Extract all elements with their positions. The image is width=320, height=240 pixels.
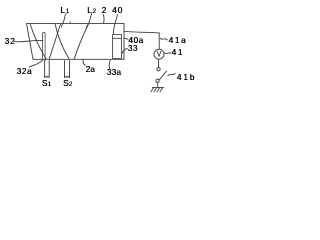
light pipe body (parallelogram) [27,23,125,59]
label 33 [128,43,138,53]
ray D1 [30,24,46,60]
label 40a [128,35,143,45]
voltmeter U (circle) [154,49,164,59]
label 33a [107,67,121,77]
S1 extension lines [44,61,46,78]
switch bottom contact [156,79,159,82]
label 2a [86,64,95,74]
ray C [74,24,89,60]
right edge [123,23,125,59]
ground [151,87,164,92]
top edge [27,22,125,24]
tick mark on top edge [69,22,71,24]
leader for 2 [102,15,105,24]
wire switch to ground [157,83,159,88]
label 32 [5,36,16,46]
label L1 [60,5,69,15]
S2 arrow [65,76,70,78]
leader for L1 [61,13,66,27]
S1 arrow [45,76,50,78]
bottom edge [33,58,124,60]
leader for 41b (tilde) [168,74,175,76]
label S2 [63,78,72,88]
leader for 2a [83,60,85,66]
label 41b [177,72,196,82]
leader for 32 [14,40,43,41]
ray A [49,24,61,60]
label 41 [172,47,184,57]
label 40 [112,5,123,15]
left face (slanted) [27,23,34,59]
leader for 33 [122,49,127,54]
label S1 [42,78,51,88]
voltmeter V letter [157,51,161,56]
bar element 32 body [42,32,45,61]
switch blade 41b [159,71,166,80]
leader for 40 [113,15,117,34]
label 41a [169,35,188,45]
wire to voltmeter [124,31,159,49]
label L2 [87,5,96,15]
photodetector block 33 [113,35,122,59]
leader for 41 [164,52,171,55]
switch top contact [157,68,160,71]
leader for L2 [86,13,92,27]
ray B [55,24,69,60]
leader for 32a [29,61,42,67]
leader for 40a (tilde) [124,38,128,40]
label 32a [17,66,33,76]
electrode line 40a [113,37,122,39]
label 2 [102,5,107,15]
wire voltmeter to switch [158,59,160,67]
S2 extension lines [64,61,66,78]
leader for 41a (tilde) [160,38,167,40]
leader for 33a [109,60,110,69]
